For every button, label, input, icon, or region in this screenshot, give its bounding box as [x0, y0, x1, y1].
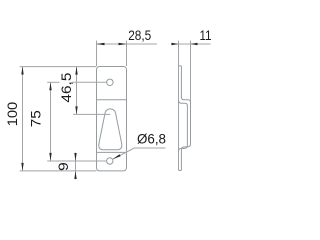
plate outline front view [97, 67, 127, 171]
top hole [107, 79, 113, 85]
arrow 46,5 top [75, 67, 77, 75]
leader line Ø6,8 [113, 148, 134, 159]
bend line lower [97, 151, 127, 153]
side profile middle front face [179, 100, 188, 152]
dim 28,5 extension left [96, 41, 98, 66]
side profile back face [181, 66, 190, 170]
arrow 9 lower (outside, pointing up) [74, 171, 76, 179]
svg-text:75: 75 [27, 110, 43, 127]
arrow 100 bottom [21, 163, 23, 171]
keyhole slot [99, 109, 122, 150]
dim 75/9 hole-center extension [47, 160, 106, 162]
svg-text:9: 9 [55, 162, 71, 171]
dim 100/9 bottom extension [20, 170, 97, 172]
arrow 75 bottom [49, 153, 51, 161]
arrow leader Ø6,8 [113, 154, 121, 159]
dim 28,5 extension right [126, 41, 128, 66]
arrow 75 top [49, 82, 51, 90]
arrow 46,5 bottom [75, 106, 77, 114]
arrow 28,5 right [119, 43, 127, 45]
dim 46,5 bottom extension [73, 113, 110, 115]
svg-text:46,5: 46,5 [58, 72, 74, 102]
dim 46,5 line [76, 67, 78, 115]
arrow 9 upper (outside, pointing down) [74, 153, 76, 161]
arrow 11 right (outside, pointing left) [191, 43, 198, 45]
bottom hole [107, 158, 113, 164]
dim 11 extension left / side front edge [178, 41, 180, 171]
dim 28,5 line [97, 43, 158, 45]
leader landing line Ø6,8 [134, 147, 165, 149]
arrow 11 left (outside, pointing right) [172, 43, 179, 45]
dim 75 top extension [47, 81, 59, 83]
dim 11 line [171, 43, 211, 45]
arrow 100 top [21, 67, 23, 75]
side profile bottom edge [179, 169, 182, 171]
bend line upper [97, 99, 127, 101]
dim 75 line [50, 82, 52, 161]
dim 9 line [75, 153, 77, 180]
dim 100 line [22, 67, 24, 171]
dim 100 top extension [20, 66, 97, 68]
svg-text:28,5: 28,5 [128, 27, 151, 43]
dim 11 extension right / side back edge [190, 41, 192, 139]
svg-text:Ø6,8: Ø6,8 [137, 131, 166, 147]
svg-text:100: 100 [4, 102, 20, 127]
svg-text:11: 11 [200, 27, 212, 43]
side profile top edge [179, 65, 182, 67]
arrow 28,5 left [97, 43, 105, 45]
